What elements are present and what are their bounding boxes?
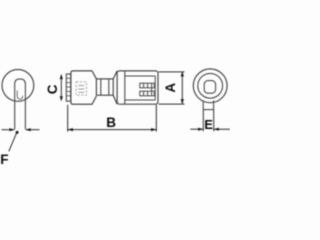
svg-text:E: E (204, 117, 213, 132)
svg-text:C: C (45, 84, 60, 94)
svg-text:B: B (106, 115, 116, 130)
svg-text:A: A (163, 83, 178, 93)
svg-text:F: F (0, 152, 8, 167)
